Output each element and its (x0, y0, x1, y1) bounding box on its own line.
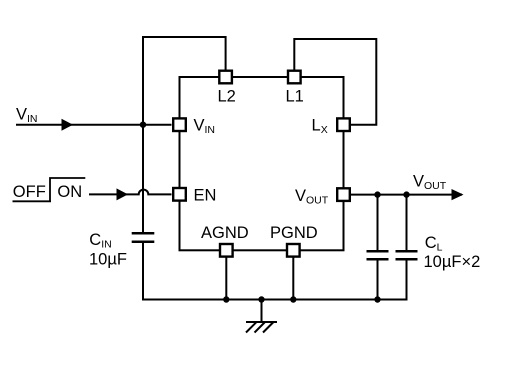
pin PGND (287, 244, 300, 257)
svg-text:EN: EN (194, 187, 217, 205)
pin AGND (220, 244, 233, 257)
node rail CL1 (374, 296, 380, 302)
wire (377, 195, 379, 251)
svg-text:CL: CL (425, 234, 443, 254)
svg-text:VOUT: VOUT (413, 172, 447, 192)
pin LX (337, 118, 350, 131)
ground (246, 322, 277, 333)
svg-text:ON: ON (57, 183, 82, 201)
svg-text:PGND: PGND (270, 224, 318, 242)
svg-text:L1: L1 (286, 88, 304, 106)
svg-text:L2: L2 (218, 88, 236, 106)
wire (377, 260, 379, 299)
wire (16, 124, 172, 126)
node VOUT junction 1 (374, 191, 380, 197)
wire (143, 37, 226, 125)
node rail PGND (290, 296, 296, 302)
wire (406, 195, 408, 251)
OFF/ON step symbol (13, 178, 86, 201)
wire (142, 125, 144, 233)
arrowhead VOUT output (452, 189, 464, 200)
pin L2 (219, 71, 232, 84)
capacitor CL1 (367, 251, 389, 259)
svg-text:VIN: VIN (16, 106, 38, 126)
svg-text:VIN: VIN (194, 117, 216, 137)
svg-text:10µF×2: 10µF×2 (424, 253, 481, 271)
node VIN junction (140, 122, 146, 128)
svg-text:VOUT: VOUT (295, 187, 329, 207)
node rail ground (258, 296, 264, 302)
node VOUT junction 2 (403, 191, 409, 197)
arrowhead EN input (117, 188, 129, 200)
svg-text:10µF: 10µF (89, 250, 127, 268)
capacitor CL2 (396, 251, 418, 259)
svg-text:OFF: OFF (13, 183, 46, 201)
wire (143, 243, 407, 300)
wire (351, 194, 462, 196)
arrowhead VIN input (62, 119, 74, 131)
node rail AGND (223, 296, 229, 302)
wire (225, 258, 227, 300)
wire (261, 300, 263, 323)
svg-text:AGND: AGND (201, 224, 249, 242)
wire (292, 258, 294, 300)
pin VIN (173, 118, 186, 131)
pin L1 (288, 71, 301, 84)
pin VOUT (337, 188, 350, 201)
wire (294, 39, 376, 125)
svg-text:LX: LX (312, 117, 328, 137)
wire (89, 190, 172, 195)
pin EN (173, 188, 186, 201)
svg-text:CIN: CIN (89, 231, 111, 251)
capacitor CIN (132, 233, 155, 242)
IC U1 DC/DC converter body (180, 77, 344, 250)
